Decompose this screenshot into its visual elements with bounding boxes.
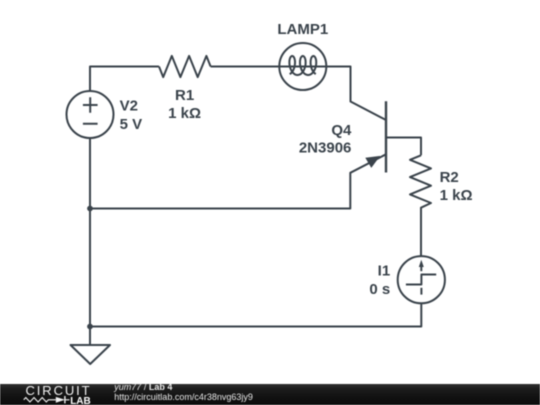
svg-text:Q4: Q4 — [331, 122, 352, 139]
svg-text:I1: I1 — [378, 263, 391, 280]
svg-text:2N3906: 2N3906 — [299, 140, 352, 157]
svg-text:V2: V2 — [120, 98, 138, 115]
svg-text:R1: R1 — [175, 87, 194, 104]
svg-text:5 V: 5 V — [120, 116, 143, 133]
svg-text:LAB: LAB — [70, 396, 91, 405]
svg-text:1 kΩ: 1 kΩ — [440, 187, 473, 204]
svg-text:R2: R2 — [440, 169, 459, 186]
svg-text:0 s: 0 s — [369, 281, 390, 298]
svg-text:LAMP1: LAMP1 — [277, 21, 328, 38]
svg-text:1 kΩ: 1 kΩ — [168, 105, 201, 122]
